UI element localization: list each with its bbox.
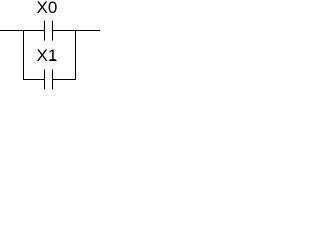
label X1 digit serif foot (50, 59, 56, 61)
contact X1 right bar (52, 70, 53, 90)
wire: bottom branch left segment (23, 79, 44, 80)
svg-text:X1: X1 (37, 46, 58, 65)
wire: left branch vertical (23, 30, 24, 80)
wire: top rung right segment (53, 30, 100, 31)
svg-text:X0: X0 (37, 0, 58, 17)
contact X1 left bar (44, 70, 45, 90)
wire: right branch vertical (75, 30, 76, 80)
wire: bottom branch right segment (53, 79, 76, 80)
ladder logic rung with parallel contacts X0 and X1 (0, 0, 100, 93)
wire: top rung left segment (0, 30, 44, 31)
contact X0 left bar (44, 21, 45, 41)
contact X0 right bar (52, 21, 53, 41)
